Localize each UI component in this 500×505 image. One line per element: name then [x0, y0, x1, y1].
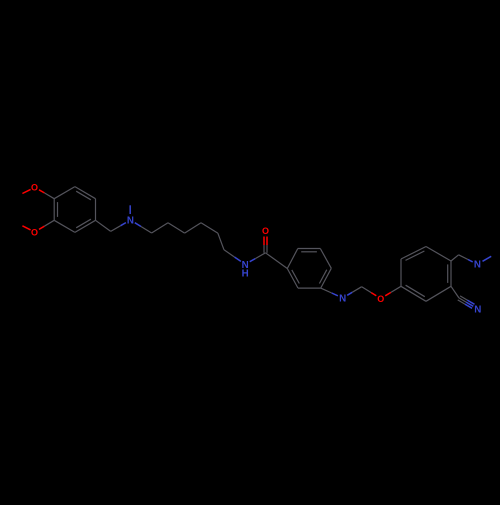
- bond r3 P4-P5: [450, 261, 452, 286]
- bond G-N1: [111, 226, 121, 232]
- svg-text:O: O: [262, 226, 269, 236]
- bond r2 W6-W1: [287, 269, 298, 289]
- svg-text:H: H: [242, 269, 249, 280]
- bond r1 C-E: [75, 187, 96, 199]
- bond r2 W5-W6: [298, 287, 321, 289]
- ring3 aromatic inner lines: [406, 251, 425, 260]
- bond chain H5-H6: [218, 233, 224, 250]
- svg-text:N: N: [339, 293, 346, 304]
- bond chain H1-H2: [152, 223, 168, 233]
- bond N1-H1: [135, 223, 141, 227]
- bond r3 P6-P1: [401, 286, 426, 301]
- bond chain H3-H4: [185, 223, 201, 233]
- bond ring3-CH2b: [451, 255, 459, 261]
- svg-text:N: N: [474, 304, 481, 315]
- bond C3-ring2: [266, 253, 288, 269]
- bond ring3-nitrileC: [451, 286, 459, 298]
- ring1 aromatic inner lines: [57, 202, 59, 217]
- bond r2 W4-W5: [321, 268, 332, 288]
- svg-text:N: N: [474, 260, 481, 271]
- methyl stub on N1: [129, 205, 131, 214]
- methyl stub on N3: [483, 256, 492, 261]
- bond ring2-N2: [321, 288, 332, 293]
- nitrile triple bond C#N: [460, 296, 467, 300]
- bond r3 P5-P6: [426, 286, 451, 301]
- methyl stub on O1 (methoxy CH3): [22, 189, 30, 193]
- bond N2-CH2: [347, 292, 352, 295]
- bond r2 W1-W2: [287, 249, 298, 269]
- bond r1 F-D: [75, 220, 96, 232]
- bond r2 W3-W4: [320, 249, 331, 269]
- bond chain H2-H3: [168, 223, 185, 233]
- svg-text:O: O: [31, 182, 38, 192]
- ring2 aromatic inner lines: [301, 251, 317, 253]
- bond r3 P2-P3: [401, 247, 426, 260]
- bond ring1-G: [96, 220, 111, 231]
- bond CH2-O4: [362, 287, 372, 293]
- C=O double bond: [263, 237, 265, 246]
- bond H6-NH: [224, 250, 235, 257]
- svg-text:O: O: [377, 294, 384, 304]
- methyl stub on O2 (methoxy CH3): [22, 226, 30, 230]
- bond O1-C_A: [39, 190, 44, 193]
- bond r1 A-C: [54, 187, 75, 199]
- bond r1 D-B: [54, 220, 75, 232]
- bond r1 B-A: [53, 199, 55, 221]
- bond O2-C_B: [39, 226, 44, 229]
- bond NH-C3 amide: [250, 259, 256, 262]
- svg-text:N: N: [127, 216, 134, 227]
- bond r2 W2-W3: [298, 248, 321, 250]
- bond O4-ring3: [385, 292, 391, 295]
- bond CH2b-N3: [459, 255, 468, 260]
- bond r1 E-F: [95, 199, 97, 221]
- bond r3 P3-P4: [426, 247, 451, 262]
- svg-text:O: O: [31, 227, 38, 237]
- bond r3 P1-P2: [400, 259, 402, 286]
- bond chain H4-H5: [201, 223, 218, 233]
